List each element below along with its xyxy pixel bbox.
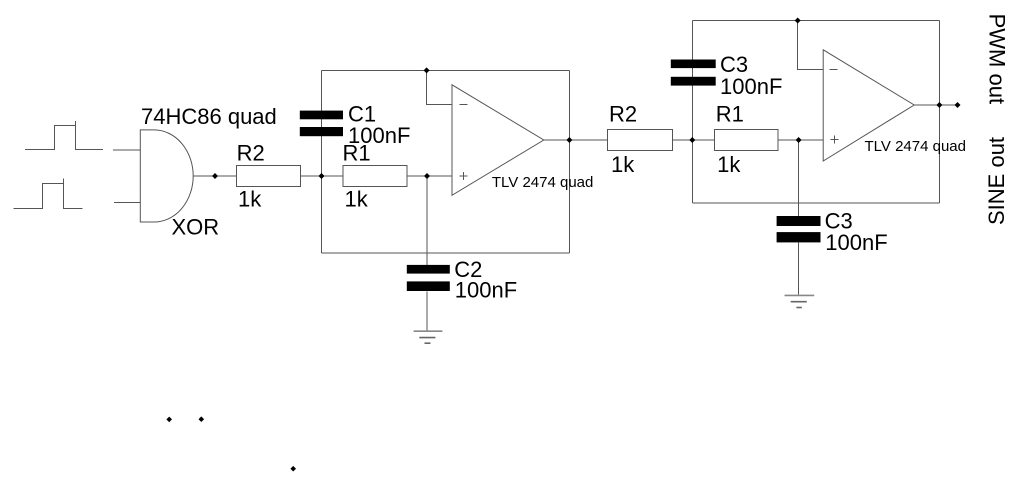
wire node B2 to capacitor C3	[798, 140, 800, 216]
input pulse waveform 2	[14, 179, 83, 209]
wire node B to capacitor C2	[426, 176, 428, 265]
node feedback top junction stage 2	[795, 18, 801, 24]
wire R2 to R1 stage 2	[673, 139, 715, 141]
wire feedback bottom stage 1	[322, 252, 570, 254]
capacitor C1	[300, 111, 343, 120]
XOR gate U1	[140, 130, 193, 222]
ground stage 1	[414, 331, 443, 343]
node B2 junction stage 2	[796, 137, 802, 143]
svg-text:1k: 1k	[717, 152, 741, 177]
resistor R2 stage 1	[237, 165, 301, 186]
svg-text:SINE out: SINE out	[984, 137, 1009, 225]
op-amp U2 TLV2474 stage 1	[452, 85, 544, 196]
node gate output junction	[212, 173, 218, 179]
wire C2 to ground	[426, 291, 428, 331]
wire feedback left vertical stage 2	[691, 21, 693, 204]
wire feedback left vertical stage 1	[321, 70, 323, 253]
wire C3 to ground	[798, 243, 800, 295]
node A junction stage 1	[319, 173, 325, 179]
capacitor C3 stage 2 bottom	[777, 216, 821, 226]
svg-text:R1: R1	[716, 102, 744, 127]
svg-text:XOR: XOR	[172, 215, 220, 240]
wire feedback top stage 2	[692, 20, 939, 22]
wire R1 to op-amp 2	[778, 139, 823, 141]
op-amp U3 non-inverting input mark	[830, 136, 838, 144]
ground stage 2	[785, 295, 815, 307]
wire op-amp 1 output	[544, 139, 608, 141]
resistor R2 stage 2	[608, 130, 673, 151]
svg-text:100nF: 100nF	[720, 74, 782, 99]
wire gate input A	[113, 149, 141, 151]
wire gate input B	[114, 201, 140, 203]
node PWM output terminal	[955, 102, 961, 108]
op-amp U2 inverting input mark	[460, 104, 468, 106]
resistor R1 stage 2	[714, 130, 778, 151]
capacitor C3 stage 2 top	[671, 60, 716, 69]
svg-text:TLV 2474 quad: TLV 2474 quad	[492, 174, 593, 191]
svg-text:R2: R2	[609, 102, 637, 127]
wire to inverting input stage 2	[798, 21, 824, 70]
node output junction stage 1	[566, 137, 572, 143]
wire R2 to R1	[301, 175, 343, 177]
wire feedback right vertical stage 1	[568, 70, 570, 253]
resistor R1 stage 1	[343, 165, 407, 186]
wire feedback bottom stage 2	[692, 202, 939, 204]
svg-text:1k: 1k	[611, 152, 635, 177]
wire op-amp 2 output	[914, 104, 957, 106]
wire R1 to op-amp 1	[407, 175, 452, 177]
svg-text:R2: R2	[237, 141, 265, 166]
capacitor C2	[407, 265, 450, 274]
svg-text:74HC86 quad: 74HC86 quad	[141, 104, 277, 129]
wire gate output	[193, 175, 236, 177]
wire feedback top stage 1	[322, 69, 570, 71]
op-amp U2 non-inverting input mark	[460, 172, 468, 180]
svg-text:100nF: 100nF	[455, 277, 517, 302]
svg-text:PWM out: PWM out	[985, 14, 1010, 104]
wire feedback right vertical stage 2	[938, 21, 940, 204]
stray dot 1	[166, 417, 172, 423]
stray dot 3	[290, 466, 296, 472]
svg-text:TLV 2474 quad: TLV 2474 quad	[865, 138, 966, 155]
node B junction stage 1	[424, 173, 430, 179]
svg-text:R1: R1	[343, 141, 371, 166]
stray dot 2	[199, 416, 205, 422]
svg-text:100nF: 100nF	[825, 230, 887, 255]
node A2 junction stage 2	[689, 137, 695, 143]
op-amp U3 TLV2474 stage 2	[823, 50, 914, 161]
node output junction stage 2	[936, 102, 942, 108]
input pulse waveform 1	[25, 121, 103, 150]
svg-text:1k: 1k	[238, 186, 262, 211]
op-amp U3 inverting input mark	[829, 69, 837, 71]
node feedback top junction stage 1	[424, 67, 430, 73]
svg-text:1k: 1k	[345, 186, 369, 211]
wire to inverting input stage 1	[427, 70, 452, 104]
